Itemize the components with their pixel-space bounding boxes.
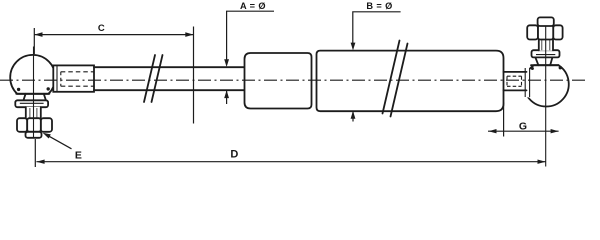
left neck sides [26,107,41,118]
right hex nut right facet [553,25,562,39]
right neck sides [539,40,553,51]
left socket face line [56,66,58,92]
svg-text:G: G [519,120,527,132]
right neck fill [539,39,553,51]
left housing flat bottom edge [16,93,49,95]
left collar trapezoid sides [23,94,46,101]
dimension D line [36,161,545,163]
rod break slash 1 [144,55,155,102]
dimension A leader [227,11,274,60]
right socket face lines [525,68,529,97]
right ball crosshair vertical axis [545,26,547,167]
right flange inner line [536,54,555,56]
tube break slash 2 [391,44,408,117]
left socket body on rod [53,65,94,91]
left stud end below nut [26,132,42,138]
right hex nut middle facet [538,25,553,39]
main centerline axis [0,79,585,81]
dimension B arrow down [351,43,356,51]
right hex nut left facet [527,25,538,39]
right socket face mask [522,68,530,98]
dimension D extension line left [34,139,36,167]
dimension D arrow right [538,160,546,164]
cylinder main tube section [317,51,504,112]
dimension A arrow down [224,59,229,67]
left neck inner lines [30,108,37,118]
dimension B lower line [352,111,354,121]
left ball joint housing circle [10,55,55,94]
svg-text:A = Ø: A = Ø [240,1,266,11]
dimension A arrow up [224,90,229,98]
dimension A lower line [226,91,228,104]
cylinder front gland section [245,53,312,109]
right neck between tube and ball [504,72,527,91]
right collar trapezoid sides [535,57,552,65]
tube break slash 1 [383,41,400,114]
svg-text:E: E [75,149,82,161]
dimension C arrow left [34,32,42,37]
svg-text:D: D [230,149,238,161]
dimension B leader [353,12,401,44]
dimension C extension line left [33,28,35,54]
dimension G line [488,130,559,132]
dimension B arrow up [351,111,356,119]
left housing peen dot right [47,87,50,90]
dimension G extension line [503,103,505,137]
right housing peen dot left [531,67,534,70]
left hex nut right facet [41,118,52,132]
left neck fill [26,107,41,119]
dimension G arrow left [489,129,497,133]
svg-text:C: C [98,23,105,34]
label E leader line [45,134,71,149]
piston rod top line [94,66,244,68]
rod break slash 2 [152,55,163,102]
left socket hidden thread dashes [61,72,94,86]
dimension C extension line right [193,27,195,124]
dimension G arrow right [551,129,559,133]
dimension C line [34,34,193,36]
left housing peen dot left [17,88,20,91]
left flange washer [15,100,48,107]
left hex nut left facet [17,118,27,132]
left ball crosshair vertical axis [33,47,35,139]
right ball joint housing circle [524,65,569,106]
left hex nut middle facet [27,118,41,132]
left socket hidden thread end dash [60,72,62,86]
dimension C arrow right [185,32,193,37]
right neck hidden thread dashed box [507,76,522,86]
right housing peen dot right [559,66,562,69]
right housing flat top edge [531,64,559,66]
left flange inner line [20,102,44,104]
svg-text:B = Ø: B = Ø [366,1,392,11]
piston rod bottom line [94,89,244,91]
right stud end above nut [538,17,554,26]
label E leader arrowhead [43,133,51,139]
right flange washer [532,50,560,57]
dimension D arrow left [36,160,44,164]
